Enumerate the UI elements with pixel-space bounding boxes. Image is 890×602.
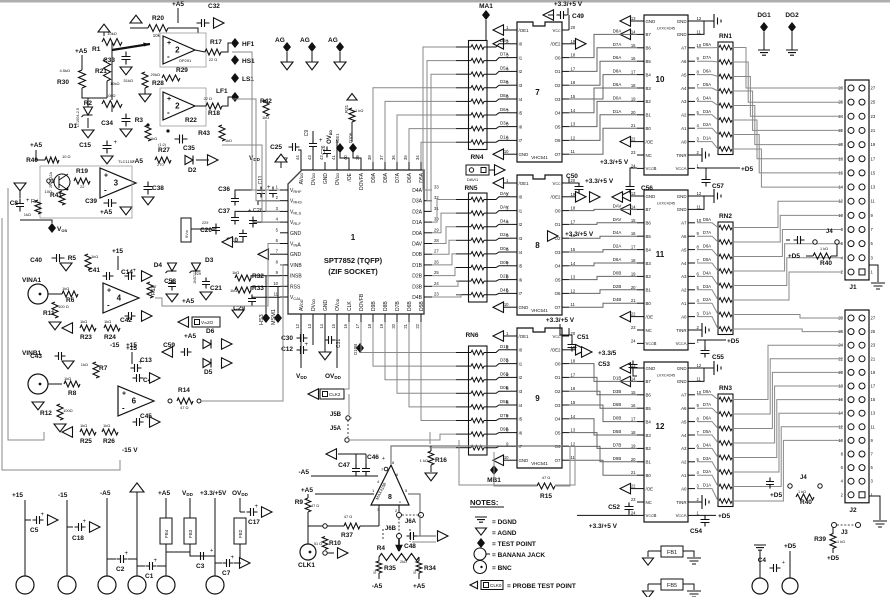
legend TEST POINT: [477, 538, 485, 548]
svg-text:O5: O5: [555, 277, 561, 282]
svg-text:RN6: RN6: [465, 332, 478, 339]
probe clock top left: [326, 449, 337, 460]
svg-text:R8: R8: [68, 390, 77, 397]
resistor R23: [80, 325, 96, 331]
svg-text:DAV: DAV: [613, 217, 622, 222]
svg-text:NC: NC: [646, 500, 652, 505]
svg-text:DG1: DG1: [757, 12, 771, 19]
svg-text:13: 13: [631, 16, 636, 21]
svg-text:20: 20: [631, 457, 636, 462]
svg-text:/OE2: /OE2: [550, 348, 561, 353]
IC U1 right pins 33-23: [424, 190, 432, 297]
svg-text:J6B: J6B: [385, 526, 397, 532]
svg-text:O2: O2: [555, 83, 561, 88]
svg-text:21: 21: [631, 470, 636, 475]
svg-text:VRLF: VRLF: [290, 220, 301, 226]
svg-text:10: 10: [504, 455, 509, 460]
svg-text:C1: C1: [145, 573, 154, 580]
svg-text:22 Ω: 22 Ω: [203, 96, 212, 101]
svg-text:= BANANA JACK: = BANANA JACK: [492, 552, 545, 559]
svg-text:+3.3/+5V: +3.3/+5V: [200, 490, 227, 497]
svg-text:24: 24: [631, 338, 636, 343]
svg-text:R13: R13: [151, 286, 157, 295]
svg-text:RN4: RN4: [470, 154, 483, 161]
svg-text:1kΩ: 1kΩ: [225, 139, 232, 143]
svg-text:+: +: [83, 519, 87, 525]
legend AGND: [476, 528, 487, 535]
svg-text:D7A: D7A: [703, 402, 711, 407]
svg-text:19: 19: [871, 142, 876, 147]
svg-text:R6: R6: [66, 297, 75, 304]
svg-text:OVDD: OVDD: [325, 373, 342, 380]
svg-text:I3: I3: [519, 389, 523, 394]
svg-text:22: 22: [631, 312, 636, 317]
svg-text:D8A: D8A: [703, 42, 711, 47]
svg-text:R25: R25: [80, 438, 92, 445]
legend BNC: [474, 561, 487, 574]
svg-text:-: -: [167, 52, 170, 61]
dashed J6: [383, 529, 410, 542]
svg-text:16: 16: [571, 80, 576, 85]
svg-text:D8B: D8B: [383, 301, 389, 311]
svg-text:/OE2: /OE2: [550, 42, 561, 47]
resistor ladder array left of IC 8: [469, 193, 488, 302]
svg-text:7: 7: [535, 88, 540, 97]
svg-text:18: 18: [571, 53, 576, 58]
svg-text:10: 10: [697, 390, 702, 395]
svg-text:40: 40: [343, 155, 348, 160]
svg-text:VHC541: VHC541: [531, 308, 548, 313]
svg-text:D4A: D4A: [412, 188, 422, 194]
IC 12 LVX04245 body: [644, 362, 688, 522]
svg-text:D2A: D2A: [703, 469, 711, 474]
svg-text:11: 11: [571, 302, 576, 307]
svg-text:D8A: D8A: [703, 217, 711, 222]
svg-text:1kΩ: 1kΩ: [230, 288, 237, 293]
svg-text:B5: B5: [646, 406, 652, 411]
uptri top R20 area: [130, 15, 142, 23]
svg-text:C7: C7: [222, 570, 231, 577]
capacitor C3: [197, 552, 208, 560]
svg-text:A5: A5: [681, 419, 687, 424]
svg-text:D2: D2: [188, 167, 197, 174]
svg-text:RN5: RN5: [464, 185, 477, 192]
bus IC8 to IC11: [569, 209, 637, 210]
test point HF1: [231, 38, 239, 48]
svg-text:D4A: D4A: [703, 95, 711, 100]
svg-text:J6A: J6A: [405, 519, 417, 525]
svg-text:B2: B2: [646, 446, 652, 451]
svg-text:+15: +15: [126, 345, 137, 352]
svg-text:3: 3: [114, 179, 119, 188]
svg-text:LVXC4245: LVXC4245: [657, 27, 675, 31]
resistor R40b: [796, 494, 814, 500]
DAV1 probe: [466, 165, 489, 175]
svg-text:+A5: +A5: [30, 142, 42, 149]
svg-text:-: -: [167, 108, 170, 117]
svg-text:+: +: [122, 391, 126, 398]
svg-text:21: 21: [631, 298, 636, 303]
svg-text:R4: R4: [377, 545, 386, 552]
svg-text:C51: C51: [577, 334, 589, 341]
svg-text:15: 15: [631, 218, 636, 223]
svg-text:14: 14: [571, 108, 576, 113]
svg-text:CLK2: CLK2: [329, 392, 341, 397]
svg-text:VCCB: VCCB: [646, 513, 657, 518]
svg-text:R42: R42: [260, 98, 272, 105]
svg-text:10: 10: [697, 43, 702, 48]
svg-text:+A5: +A5: [75, 48, 87, 55]
svg-text:100 Ω: 100 Ω: [58, 304, 69, 309]
svg-text:1kΩ: 1kΩ: [80, 319, 87, 324]
svg-text:B0: B0: [646, 126, 652, 131]
svg-text:B6: B6: [646, 221, 652, 226]
svg-text:D5B: D5B: [419, 301, 425, 311]
capacitor C48: [407, 532, 418, 540]
agnd below C12: [319, 352, 331, 360]
svg-text:20: 20: [391, 323, 396, 328]
legend PROBE: [470, 581, 478, 589]
svg-text:O1: O1: [555, 69, 561, 74]
svg-text:D6A: D6A: [703, 416, 711, 421]
svg-text:D5A: D5A: [703, 257, 711, 262]
svg-text:VHC541: VHC541: [531, 155, 548, 160]
wire pin3 riser: [378, 505, 380, 526]
svg-text:A3: A3: [681, 99, 687, 104]
svg-text:C25: C25: [270, 144, 282, 151]
svg-text:10 Ω: 10 Ω: [62, 154, 71, 159]
svg-text:12: 12: [571, 441, 576, 446]
resistor R37: [327, 525, 344, 527]
svg-text:GND: GND: [677, 379, 687, 384]
wire C9 riser to pin 43: [312, 150, 314, 162]
svg-text:12: 12: [697, 191, 702, 196]
svg-text:INSB: INSB: [290, 274, 302, 280]
svg-text:11: 11: [697, 29, 702, 34]
test point D10A: [349, 143, 357, 153]
svg-text:VDD: VDD: [249, 155, 261, 162]
svg-text:13: 13: [631, 191, 636, 196]
svg-text:MSM1: MSM1: [271, 309, 277, 325]
svg-text:16: 16: [343, 323, 348, 328]
svg-text:19: 19: [379, 323, 384, 328]
svg-text:A7: A7: [681, 221, 687, 226]
svg-text:D6A: D6A: [407, 172, 413, 182]
svg-text:20: 20: [631, 110, 636, 115]
ferrite FB1: [661, 546, 683, 557]
svg-text:-A5: -A5: [100, 490, 111, 497]
svg-text:O4: O4: [555, 111, 561, 116]
svg-text:-: -: [104, 186, 107, 195]
svg-text:C48: C48: [404, 543, 416, 550]
op-amp U2A: [160, 33, 206, 67]
svg-text:+: +: [305, 342, 309, 348]
op-amp U2B: [160, 88, 206, 126]
jumper J6A: [397, 513, 402, 518]
svg-text:A5: A5: [681, 247, 687, 252]
svg-text:O6: O6: [555, 138, 561, 143]
svg-text:1kΩ: 1kΩ: [91, 254, 98, 259]
svg-text:I1: I1: [519, 208, 523, 213]
svg-text:MA1: MA1: [479, 3, 493, 10]
svg-text:O3: O3: [555, 97, 561, 102]
probe on IC 11 pin 22: [631, 316, 637, 318]
resistor ladder array left of IC 7: [469, 41, 488, 150]
svg-text:O4: O4: [555, 264, 561, 269]
svg-text:1 kΩ: 1 kΩ: [420, 458, 428, 463]
svg-text:16: 16: [631, 403, 636, 408]
svg-text:13: 13: [571, 428, 576, 433]
agnd FB5: [643, 591, 654, 598]
svg-text:18: 18: [631, 430, 636, 435]
svg-text:J1: J1: [849, 284, 857, 291]
svg-text:I5: I5: [519, 417, 523, 422]
svg-text:10Ω: 10Ω: [45, 189, 52, 194]
svg-text:C56: C56: [641, 185, 653, 192]
svg-text:R24: R24: [104, 334, 116, 341]
svg-text:O3: O3: [555, 250, 561, 255]
svg-text:RN3: RN3: [719, 385, 732, 392]
svg-text:36: 36: [391, 155, 396, 160]
svg-text:9: 9: [535, 394, 540, 403]
svg-text:1kΩ: 1kΩ: [81, 362, 88, 367]
svg-text:A0: A0: [681, 486, 687, 491]
svg-text:R39: R39: [814, 536, 826, 543]
test point HS3: [262, 313, 270, 323]
probe on pin7 GND: [258, 249, 269, 260]
svg-text:11: 11: [656, 250, 665, 259]
svg-text:/OE1: /OE1: [335, 133, 340, 143]
svg-text:D8A: D8A: [500, 93, 509, 98]
svg-text:D3B: D3B: [412, 284, 422, 290]
svg-text:D7B: D7B: [395, 301, 401, 311]
svg-text:D1A: D1A: [703, 311, 711, 316]
svg-text:12: 12: [697, 363, 702, 368]
uptri above R1: [98, 24, 110, 32]
scan edge top: [0, 0, 890, 3]
svg-text:D3A: D3A: [412, 199, 422, 205]
svg-text:NC: NC: [646, 153, 652, 158]
svg-text:GND: GND: [323, 173, 329, 185]
svg-text:GND: GND: [323, 300, 329, 312]
svg-text:+A5: +A5: [172, 1, 184, 8]
svg-text:O1: O1: [555, 375, 561, 380]
ferrite FB5: [661, 579, 683, 590]
svg-text:47 Ω: 47 Ω: [180, 405, 189, 410]
svg-text:27: 27: [871, 86, 876, 91]
svg-text:AG: AG: [328, 37, 338, 44]
test point MSM1: [274, 313, 282, 323]
svg-text:I2: I2: [519, 375, 523, 380]
capacitor C54: [695, 514, 716, 516]
svg-text:1kΩ: 1kΩ: [24, 212, 31, 217]
svg-text:O7: O7: [555, 305, 561, 310]
svg-text:VINA: VINA: [290, 242, 301, 249]
svg-text:27: 27: [434, 249, 439, 254]
legend BANANA JACK: [474, 548, 486, 560]
svg-text:+: +: [41, 512, 45, 518]
svg-text:15: 15: [571, 247, 576, 252]
capacitor C1: [146, 562, 157, 570]
IC 9 VHC541 body: [517, 328, 562, 468]
svg-text:VINA1: VINA1: [22, 277, 42, 284]
DGND on IC 11 pins 12 11: [695, 195, 714, 197]
svg-text:8: 8: [535, 241, 540, 250]
svg-text:1kΩ: 1kΩ: [103, 423, 110, 428]
svg-text:R19: R19: [76, 168, 88, 175]
svg-text:OP291: OP291: [179, 58, 192, 63]
svg-text:19: 19: [631, 443, 636, 448]
svg-text:D3A: D3A: [500, 121, 509, 126]
svg-text:AG: AG: [275, 37, 285, 44]
svg-text:FB2: FB2: [238, 529, 243, 538]
svg-text:D5A: D5A: [419, 172, 425, 182]
svg-text:17: 17: [871, 384, 876, 389]
svg-text:2N2222A: 2N2222A: [49, 172, 53, 188]
svg-text:DAV: DAV: [412, 242, 423, 248]
svg-text:2kΩ: 2kΩ: [400, 560, 407, 564]
svg-text:C11: C11: [258, 175, 264, 184]
probe on IC 7 pin 1: [503, 29, 510, 31]
svg-text:C39: C39: [85, 198, 97, 205]
resistor R16: [430, 446, 432, 451]
svg-text:17: 17: [631, 417, 636, 422]
svg-text:2: 2: [175, 46, 180, 55]
svg-text:35: 35: [403, 155, 408, 160]
svg-text:D3B: D3B: [613, 389, 622, 394]
svg-text:23: 23: [871, 114, 876, 119]
svg-text:B1: B1: [646, 460, 652, 465]
svg-text:A4: A4: [681, 433, 687, 438]
svg-text:A1: A1: [681, 301, 687, 306]
probe on IC 8 pin 10: [503, 306, 510, 308]
svg-text:O6: O6: [555, 291, 561, 296]
legend DGND: [475, 517, 487, 522]
svg-text:D5B: D5B: [500, 399, 509, 404]
svg-text:A2: A2: [681, 288, 687, 293]
svg-text:43: 43: [307, 155, 312, 160]
svg-text:D4A: D4A: [703, 270, 711, 275]
svg-text:RN2: RN2: [719, 213, 732, 220]
svg-text:D3A: D3A: [703, 456, 711, 461]
svg-text:+A5: +A5: [184, 333, 196, 340]
probe left C59: [162, 347, 173, 358]
svg-text:D4A: D4A: [613, 230, 622, 235]
svg-text:15: 15: [631, 390, 636, 395]
svg-text:I4: I4: [519, 403, 523, 408]
MB1 test point: [493, 452, 495, 466]
svg-text:+D5: +D5: [770, 492, 782, 499]
svg-text:D3B: D3B: [500, 358, 509, 363]
svg-text:23: 23: [631, 325, 636, 330]
svg-text:R30: R30: [57, 79, 69, 86]
svg-text:I0: I0: [519, 42, 523, 47]
wire C20 to 9VIN box: [191, 224, 216, 229]
svg-text:D1B: D1B: [500, 344, 509, 349]
svg-text:A2: A2: [681, 113, 687, 118]
svg-text:+3.3/5: +3.3/5: [598, 350, 617, 357]
DGND on IC 12 TINR pin: [695, 501, 702, 503]
svg-text:R1: R1: [92, 46, 101, 53]
resistor R40 near J4: [813, 253, 831, 259]
svg-text:B1: B1: [646, 113, 652, 118]
svg-text:R37: R37: [341, 532, 353, 539]
wire pin11 VCAL to C29: [252, 295, 280, 297]
svg-text:C18: C18: [72, 535, 84, 542]
svg-text:CLK1: CLK1: [298, 562, 315, 569]
svg-text:R2: R2: [84, 100, 93, 107]
resistor R34: [416, 561, 422, 573]
svg-text:1kΩ: 1kΩ: [232, 270, 239, 275]
svg-text:14: 14: [571, 414, 576, 419]
svg-text:VINB1: VINB1: [22, 350, 42, 357]
banana jack C4a: [752, 578, 768, 594]
svg-text:10: 10: [504, 302, 509, 307]
probe on IC 11 pin 13: [631, 195, 637, 197]
svg-text:D6A: D6A: [613, 82, 622, 87]
svg-text:D4B: D4B: [500, 287, 509, 292]
svg-text:VDD: VDD: [296, 373, 308, 380]
svg-text:A5: A5: [681, 72, 687, 77]
svg-text:D7A: D7A: [703, 230, 711, 235]
svg-text:22: 22: [80, 184, 85, 189]
svg-text:12: 12: [571, 135, 576, 140]
svg-text:A0: A0: [681, 139, 687, 144]
svg-text:18: 18: [631, 258, 636, 263]
svg-text:25: 25: [434, 270, 439, 275]
svg-text:13: 13: [571, 122, 576, 127]
agnd FB1: [643, 558, 654, 565]
svg-text:I6: I6: [519, 277, 523, 282]
svg-text:C53: C53: [598, 361, 610, 368]
svg-text:D2A: D2A: [412, 209, 422, 215]
svg-text:33: 33: [434, 185, 439, 190]
svg-text:C9: C9: [304, 130, 310, 137]
wire MB1 to R15: [494, 452, 537, 486]
svg-text:RSS: RSS: [290, 284, 301, 290]
svg-text:VOS: VOS: [57, 226, 67, 233]
svg-text:I0: I0: [519, 348, 523, 353]
svg-text:51: 51: [413, 570, 417, 574]
svg-text:C40: C40: [30, 257, 42, 264]
MA1 test point: [485, 20, 487, 40]
svg-text:+3.3/+5 V: +3.3/+5 V: [554, 1, 583, 8]
svg-text:A1: A1: [681, 473, 687, 478]
svg-text:25: 25: [871, 329, 876, 334]
svg-text:R10: R10: [329, 540, 341, 547]
svg-text:10kΩ: 10kΩ: [107, 31, 116, 36]
svg-text:D5: D5: [204, 369, 213, 376]
capacitor C17: [247, 508, 258, 516]
wire pin3 VRLS to C37: [235, 211, 280, 214]
svg-text:C4: C4: [758, 557, 767, 564]
DG1 test point: [760, 22, 768, 32]
svg-text:C15: C15: [79, 142, 91, 149]
svg-text:D4: D4: [154, 262, 163, 269]
svg-text:13: 13: [871, 411, 876, 416]
svg-text:R32: R32: [252, 273, 264, 280]
junction circle above R10: [323, 524, 327, 528]
svg-text:20: 20: [631, 285, 636, 290]
svg-text:GND: GND: [677, 207, 687, 212]
DGND on IC 10 pins 12 11: [695, 20, 714, 22]
svg-text:25: 25: [871, 100, 876, 105]
svg-text:D8A: D8A: [703, 389, 711, 394]
svg-text:15: 15: [571, 94, 576, 99]
svg-text:10: 10: [656, 75, 665, 84]
svg-text:14: 14: [631, 204, 636, 209]
svg-text:+D5: +D5: [827, 555, 839, 562]
